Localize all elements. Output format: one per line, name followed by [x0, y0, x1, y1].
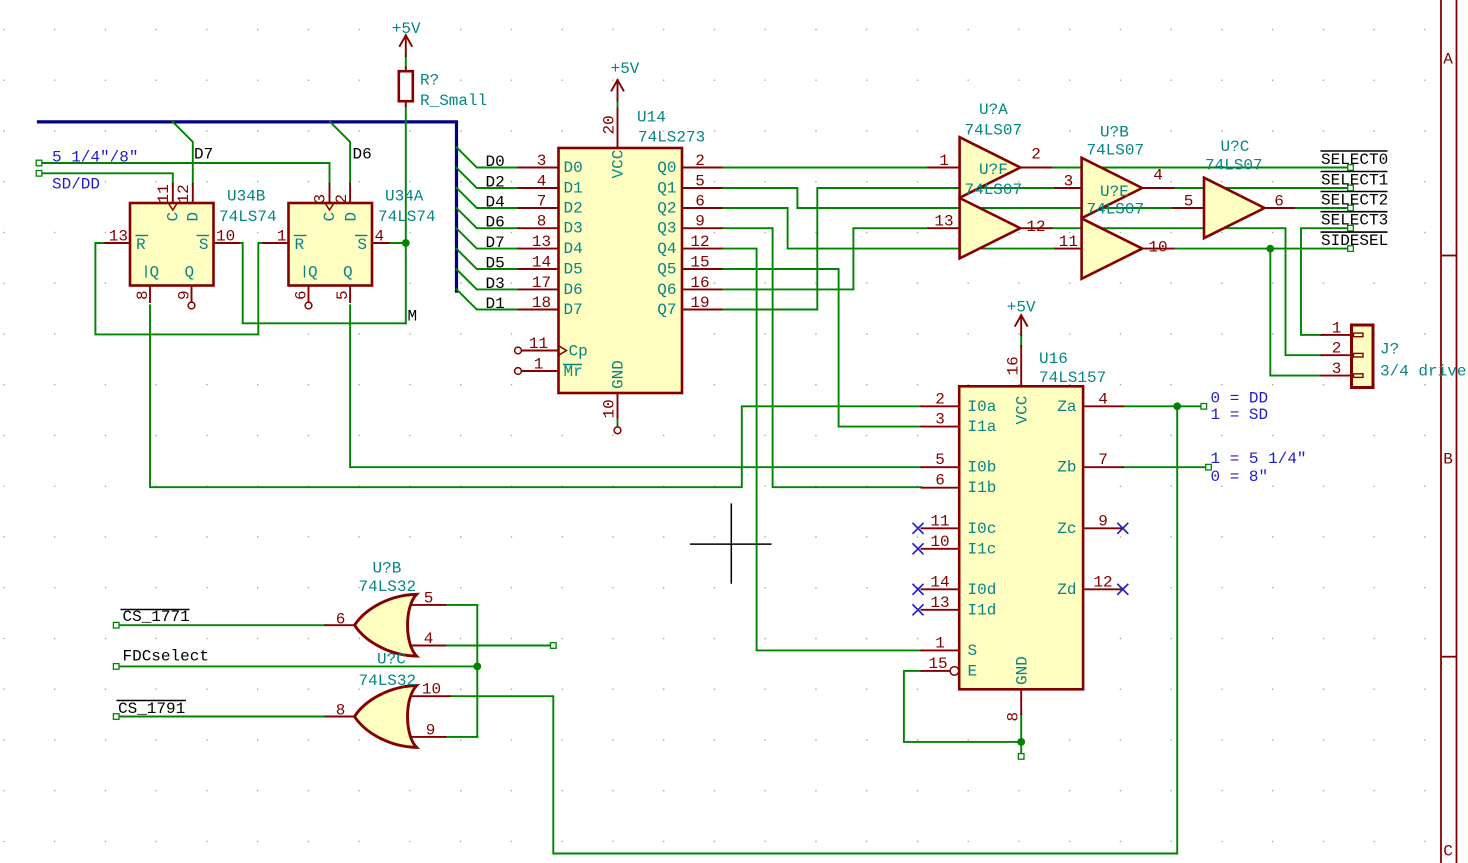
svg-text:I1b: I1b: [968, 479, 997, 497]
svg-text:3/4 drives: 3/4 drives: [1380, 363, 1468, 381]
svg-text:I0a: I0a: [968, 398, 997, 416]
svg-text:1: 1: [939, 152, 949, 170]
wire U14 Q2 to U?E input: [722, 208, 1056, 249]
wire U?E output to SIDESEL: [1174, 248, 1351, 250]
svg-text:Q: Q: [150, 264, 160, 282]
svg-text:GND: GND: [610, 360, 628, 389]
svg-text:Q3: Q3: [657, 220, 676, 238]
power +5V (U14): [611, 60, 640, 101]
svg-text:7: 7: [537, 193, 547, 211]
svg-text:Mr: Mr: [564, 363, 583, 381]
wire U14 Q1 to U?C input: [722, 188, 1173, 208]
sheet frame inner line: [1440, 0, 1442, 863]
svg-text:D0: D0: [486, 153, 505, 171]
svg-text:D6: D6: [353, 146, 372, 164]
svg-text:4: 4: [424, 630, 434, 648]
svg-text:4: 4: [375, 228, 385, 246]
svg-text:I1d: I1d: [968, 601, 997, 619]
buffer U?E 74LS07: [1055, 183, 1173, 279]
svg-text:13: 13: [532, 233, 551, 251]
svg-text:8: 8: [336, 702, 346, 720]
wire bus entry D6b: [457, 208, 519, 228]
svg-text:+5V: +5V: [1007, 299, 1036, 317]
bus D0-D7: [39, 122, 457, 291]
svg-text:20: 20: [601, 115, 619, 134]
svg-text:8: 8: [1005, 712, 1023, 722]
svg-text:9: 9: [176, 290, 194, 300]
label SELECT0: [1321, 151, 1389, 169]
node square Zb end: [1206, 464, 1212, 470]
wire +5V to U14 VCC: [617, 101, 619, 109]
wire SIDESEL to J pin3: [1270, 249, 1321, 376]
label SELECT1: [1321, 172, 1389, 190]
node square 5_14_8: [36, 160, 42, 166]
IC U16 74LS157: [922, 346, 1123, 722]
svg-text:S: S: [199, 236, 209, 254]
svg-text:13: 13: [109, 228, 128, 246]
resistor R? R_Small: [399, 68, 487, 111]
no-connect X U16 pin13: [913, 604, 924, 615]
svg-text:I0c: I0c: [968, 520, 997, 538]
wire U?C output to SELECT2: [1294, 207, 1351, 209]
svg-text:S: S: [357, 236, 367, 254]
wire net SD/DD to U34B pin11: [39, 173, 173, 184]
node square CS_1771: [113, 622, 119, 628]
svg-text:D1: D1: [564, 180, 583, 198]
svg-text:5: 5: [334, 290, 352, 300]
svg-text:18: 18: [532, 294, 551, 312]
wire bus entry D7b: [457, 228, 519, 248]
svg-text:D5: D5: [486, 255, 505, 273]
svg-text:3: 3: [1064, 173, 1074, 191]
svg-text:A: A: [1443, 51, 1453, 69]
no-connect X U16 pin11: [913, 523, 924, 534]
buffer U?F 74LS07: [928, 161, 1051, 258]
node square U16 GND end: [1018, 754, 1024, 760]
svg-text:+5V: +5V: [392, 20, 421, 38]
or-gate U?C 74LS32: [325, 651, 449, 748]
svg-text:1: 1: [1332, 319, 1342, 337]
wire bus entry D1: [457, 289, 519, 309]
svg-text:5: 5: [935, 451, 945, 469]
wire gate pin9 to vertical: [445, 736, 477, 738]
power +5V (U16): [1007, 299, 1036, 336]
svg-text:U34B: U34B: [227, 188, 265, 206]
svg-text:15: 15: [690, 254, 709, 272]
node square SELECT1: [1348, 185, 1354, 191]
svg-text:D6: D6: [486, 214, 505, 232]
svg-text:U?C: U?C: [377, 651, 406, 669]
svg-text:D5: D5: [564, 261, 583, 279]
svg-text:SD/DD: SD/DD: [52, 176, 100, 194]
svg-text:6: 6: [695, 193, 705, 211]
svg-text:13: 13: [934, 213, 953, 231]
svg-text:5 1/4"/8": 5 1/4"/8": [52, 149, 138, 167]
svg-text:12: 12: [1093, 573, 1112, 591]
svg-text:74LS32: 74LS32: [359, 578, 417, 596]
svg-text:4: 4: [537, 173, 547, 191]
buffer U?B 74LS07: [1055, 124, 1173, 219]
svg-text:6: 6: [1274, 193, 1284, 211]
junction node M: [402, 239, 410, 247]
svg-text:74LS07: 74LS07: [965, 181, 1023, 199]
wire U14 Q5 to U16 pin3 I1a: [722, 269, 922, 427]
svg-text:C: C: [321, 212, 339, 222]
svg-text:4: 4: [1153, 167, 1163, 185]
svg-text:Zd: Zd: [1057, 581, 1076, 599]
svg-text:2: 2: [333, 194, 351, 204]
svg-text:R: R: [136, 236, 146, 254]
svg-text:R: R: [295, 236, 305, 254]
svg-text:13: 13: [930, 594, 949, 612]
node square SELECT0: [1348, 165, 1354, 171]
svg-text:0 = DD: 0 = DD: [1211, 390, 1269, 408]
wire gates common vertical: [476, 605, 478, 737]
wire U16 pin15 E loop to GND junction: [904, 671, 1021, 742]
svg-text:1: 1: [277, 228, 287, 246]
svg-text:U?F: U?F: [979, 161, 1008, 179]
svg-text:2: 2: [695, 152, 705, 170]
svg-text:S: S: [968, 642, 978, 660]
wire bus entry D6 to U34A pin2: [330, 122, 350, 184]
svg-text:3: 3: [537, 152, 547, 170]
svg-text:Cp: Cp: [569, 343, 588, 361]
svg-text:Q4: Q4: [657, 240, 676, 258]
svg-text:19: 19: [690, 294, 709, 312]
svg-text:16: 16: [1005, 356, 1023, 375]
wire U?B output to SELECT1: [1174, 187, 1351, 189]
junction node FDCselect: [473, 663, 481, 671]
label CS_1791: [117, 700, 187, 718]
junction node U16 GND/E: [1017, 738, 1025, 746]
svg-text:R_Small: R_Small: [420, 92, 487, 110]
wire net 5_14_8 to U34A pin3: [39, 163, 330, 184]
wire +5V to resistor: [405, 56, 407, 68]
svg-text:D: D: [343, 212, 361, 222]
node square SIDESEL: [1348, 246, 1354, 252]
svg-text:Q7: Q7: [657, 301, 676, 319]
or-gate U?B 74LS32: [325, 560, 445, 657]
svg-text:Q: Q: [185, 264, 195, 282]
svg-text:5: 5: [695, 173, 705, 191]
svg-text:8: 8: [134, 290, 152, 300]
wire U34A pin4 to M junction: [389, 242, 406, 244]
node square SELECT3: [1348, 225, 1354, 231]
svg-text:1 = SD: 1 = SD: [1211, 406, 1269, 424]
node square gate pin4 end: [551, 643, 557, 649]
svg-text:U14: U14: [637, 109, 666, 127]
wire net M from U34B pin10 to pullup: [233, 243, 406, 323]
svg-text:VCC: VCC: [610, 150, 628, 179]
svg-text:7: 7: [1098, 451, 1108, 469]
svg-text:Q1: Q1: [657, 180, 676, 198]
wire U16 Zb output: [1123, 466, 1206, 468]
wire CS_1771 to gate U?B output: [119, 624, 326, 626]
svg-text:11: 11: [1059, 233, 1078, 251]
svg-text:Q5: Q5: [657, 261, 676, 279]
node square SD/DD: [36, 171, 42, 177]
svg-text:11: 11: [930, 512, 949, 530]
junction node SIDESEL: [1266, 245, 1274, 253]
wire gate pin4 dangling: [445, 645, 550, 647]
svg-text:U?B: U?B: [373, 560, 402, 578]
label SELECT3: [1321, 212, 1389, 230]
sheet frame outer line: [1456, 0, 1458, 863]
svg-text:6: 6: [336, 611, 346, 629]
svg-text:D: D: [185, 212, 203, 222]
wire U16 Za output stub to label: [1123, 405, 1202, 407]
wire net R reset cross-couple U34B pin13 to U34A pin1: [95, 243, 288, 334]
wire FDCselect to junction: [119, 665, 478, 667]
svg-text:U34A: U34A: [385, 188, 424, 206]
sheet frame tick A/B: [1441, 255, 1457, 257]
svg-text:D1: D1: [486, 295, 505, 313]
svg-text:SELECT1: SELECT1: [1321, 172, 1388, 190]
svg-text:U?A: U?A: [979, 101, 1008, 119]
svg-text:C: C: [1443, 843, 1453, 861]
svg-text:10: 10: [216, 228, 235, 246]
wire bus entry D2: [457, 168, 519, 188]
svg-text:11: 11: [529, 335, 548, 353]
svg-text:8: 8: [537, 213, 547, 231]
svg-text:74LS07: 74LS07: [965, 122, 1023, 140]
svg-text:D7: D7: [194, 146, 213, 164]
svg-text:3: 3: [312, 194, 330, 204]
svg-text:74LS74: 74LS74: [378, 208, 436, 226]
svg-text:Za: Za: [1057, 398, 1077, 416]
wire net M vertical resistor to corner: [405, 106, 407, 323]
svg-text:3: 3: [1332, 360, 1342, 378]
svg-text:I1a: I1a: [968, 418, 997, 436]
connector J? 3/4 drives: [1322, 319, 1468, 387]
svg-text:12: 12: [175, 184, 193, 203]
wire bus entry D0: [457, 147, 519, 167]
wire U34B pin8 Qbar to U16 pin2 I0a: [150, 305, 922, 487]
svg-text:5: 5: [424, 589, 434, 607]
svg-text:D3: D3: [564, 220, 583, 238]
svg-text:SELECT0: SELECT0: [1321, 151, 1388, 169]
svg-text:D6: D6: [564, 281, 583, 299]
junction node Za: [1173, 402, 1181, 410]
flip-flop U34B 74LS74: [105, 184, 350, 309]
wire U14 Q0 to U?A input: [722, 167, 929, 169]
wire CS_1791 to gate U?C output: [119, 716, 326, 718]
svg-text:SELECT3: SELECT3: [1321, 212, 1388, 230]
svg-text:5: 5: [1184, 193, 1194, 211]
svg-text:SELECT2: SELECT2: [1321, 192, 1388, 210]
svg-text:U?B: U?B: [1100, 124, 1129, 142]
svg-text:I0b: I0b: [968, 459, 997, 477]
IC U14 74LS273: [515, 109, 722, 434]
svg-text:D4: D4: [564, 240, 583, 258]
svg-text:74LS74: 74LS74: [219, 208, 277, 226]
svg-text:6: 6: [935, 472, 945, 490]
svg-text:U16: U16: [1039, 350, 1068, 368]
svg-text:10: 10: [930, 533, 949, 551]
svg-text:Q0: Q0: [657, 159, 676, 177]
svg-text:1: 1: [935, 634, 945, 652]
wire U14 Q7 to U?B input: [722, 188, 1056, 310]
svg-text:D7: D7: [564, 301, 583, 319]
flip-flop U34A 74LS74: [263, 184, 435, 309]
svg-text:74LS07: 74LS07: [1087, 201, 1145, 219]
wire U?F output to J pin2: [1052, 228, 1322, 355]
svg-text:2: 2: [935, 390, 945, 408]
svg-text:FDCselect: FDCselect: [123, 648, 209, 666]
sheet frame tick B/C: [1441, 656, 1457, 658]
editing crosshair cursor: [690, 503, 772, 583]
svg-text:Zc: Zc: [1057, 520, 1076, 538]
svg-text:74LS157: 74LS157: [1039, 369, 1106, 387]
svg-text:2: 2: [1332, 340, 1342, 358]
svg-text:74LS07: 74LS07: [1205, 157, 1263, 175]
svg-text:Q: Q: [308, 264, 318, 282]
svg-text:74LS07: 74LS07: [1087, 142, 1145, 160]
svg-text:12: 12: [690, 233, 709, 251]
label SELECT2: [1321, 192, 1389, 210]
wire U14 Q3 to U16 pin6 I1b: [722, 228, 922, 487]
wire U?A output to SELECT0: [1052, 167, 1351, 169]
svg-text:Zb: Zb: [1057, 459, 1076, 477]
svg-text:14: 14: [532, 254, 551, 272]
svg-text:74LS32: 74LS32: [359, 672, 417, 690]
svg-text:2: 2: [1031, 146, 1041, 164]
svg-text:I1c: I1c: [968, 540, 997, 558]
power +5V (resistor pullup): [392, 20, 421, 56]
buffer U?A 74LS07: [928, 101, 1051, 198]
svg-text:10: 10: [1148, 239, 1167, 257]
wire U34A pin5 Q to U16 pin5 I0b: [350, 305, 921, 467]
svg-text:C: C: [165, 212, 183, 222]
svg-text:R?: R?: [420, 72, 439, 90]
svg-text:U?E: U?E: [1100, 183, 1129, 201]
svg-text:6: 6: [293, 290, 311, 300]
svg-text:CS_1771: CS_1771: [123, 608, 190, 626]
svg-text:CS_1791: CS_1791: [118, 700, 185, 718]
svg-text:9: 9: [1098, 512, 1108, 530]
svg-text:14: 14: [930, 573, 949, 591]
svg-text:D3: D3: [486, 275, 505, 293]
svg-text:15: 15: [928, 655, 947, 673]
svg-text:Q6: Q6: [657, 281, 676, 299]
svg-text:B: B: [1443, 451, 1453, 469]
svg-text:11: 11: [155, 184, 173, 203]
svg-text:4: 4: [1098, 390, 1108, 408]
node square SELECT2: [1348, 205, 1354, 211]
svg-text:J?: J?: [1380, 341, 1399, 359]
svg-text:D7: D7: [486, 234, 505, 252]
svg-text:D2: D2: [486, 174, 505, 192]
wire U14 GND stub: [617, 418, 619, 427]
svg-text:D4: D4: [486, 194, 505, 212]
svg-text:3: 3: [935, 411, 945, 429]
no-connect X U16 pin10: [913, 543, 924, 554]
wire +5V to U16 VCC: [1020, 335, 1022, 346]
svg-text:10: 10: [601, 399, 619, 418]
no-connect X U16 pin14: [913, 584, 924, 595]
wire bus entry D5: [457, 249, 519, 269]
wire U16 GND to dangling end: [1020, 714, 1022, 754]
svg-text:GND: GND: [1014, 656, 1032, 685]
svg-text:9: 9: [426, 721, 436, 739]
node square Za end: [1201, 404, 1207, 410]
svg-text:9: 9: [695, 213, 705, 231]
buffer U?C 74LS07: [1173, 138, 1294, 238]
wire U14 Q6 to U?F input: [722, 228, 929, 289]
no-connect X U16 pin9: [1117, 523, 1128, 534]
wire gate pin5 to vertical: [445, 604, 477, 606]
svg-text:+5V: +5V: [611, 60, 640, 78]
svg-text:Q: Q: [343, 264, 353, 282]
svg-text:16: 16: [690, 274, 709, 292]
no-connect X U16 pin12: [1117, 584, 1128, 595]
svg-text:1: 1: [534, 356, 544, 374]
svg-text:VCC: VCC: [1014, 396, 1032, 425]
node square CS_1791: [113, 714, 119, 720]
svg-text:10: 10: [422, 681, 441, 699]
svg-text:I0d: I0d: [968, 581, 997, 599]
svg-text:17: 17: [532, 274, 551, 292]
svg-text:D0: D0: [564, 159, 583, 177]
label SIDESEL: [1321, 232, 1389, 250]
label CS_1771: [121, 608, 190, 626]
svg-text:M: M: [408, 308, 418, 326]
svg-text:D2: D2: [564, 200, 583, 218]
wire U14 Q4 to U16 pin1 S: [722, 249, 922, 651]
svg-text:1 = 5 1/4": 1 = 5 1/4": [1211, 450, 1307, 468]
svg-text:SIDESEL: SIDESEL: [1321, 232, 1388, 250]
svg-text:12: 12: [1026, 218, 1045, 236]
svg-text:0 = 8": 0 = 8": [1211, 468, 1269, 486]
wire bus entry D4: [457, 188, 519, 208]
svg-text:U?C: U?C: [1221, 138, 1250, 156]
svg-text:74LS273: 74LS273: [638, 129, 705, 147]
svg-text:E: E: [968, 662, 978, 680]
wire bus entry D3: [457, 269, 519, 289]
wire SELECT3 label to J pin1: [1301, 228, 1351, 335]
svg-text:Q2: Q2: [657, 200, 676, 218]
wire bus entry D7 to U34B pin12: [173, 122, 193, 184]
node square FDCselect: [113, 664, 119, 670]
wire U16 Za down to OR gate pin10: [450, 406, 1177, 853]
